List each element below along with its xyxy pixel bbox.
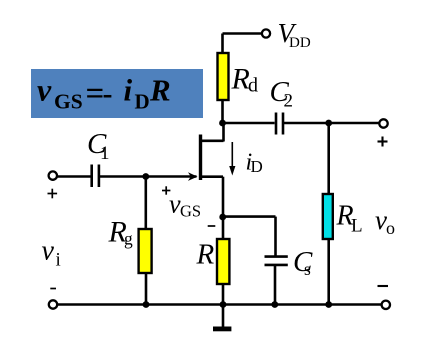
svg-text:D: D	[135, 90, 150, 114]
svg-text:v: v	[37, 72, 52, 108]
svg-text:2: 2	[284, 91, 294, 112]
svg-text:L: L	[351, 216, 363, 237]
svg-text:o: o	[386, 218, 395, 238]
svg-text:1: 1	[100, 143, 110, 164]
svg-text:i: i	[124, 73, 133, 108]
svg-text:=: =	[86, 76, 105, 112]
svg-text:D: D	[251, 157, 263, 176]
svg-text:-: -	[103, 77, 113, 110]
svg-text:R: R	[196, 239, 215, 271]
svg-text:s: s	[304, 259, 311, 279]
svg-text:R: R	[149, 73, 171, 108]
svg-text:i: i	[56, 250, 61, 271]
svg-text:v: v	[42, 236, 55, 267]
svg-text:R: R	[231, 63, 250, 96]
svg-text:d: d	[248, 75, 258, 97]
svg-text:GS: GS	[180, 202, 201, 221]
svg-text:g: g	[124, 229, 133, 249]
svg-text:DD: DD	[289, 35, 311, 51]
svg-text:GS: GS	[54, 90, 83, 114]
